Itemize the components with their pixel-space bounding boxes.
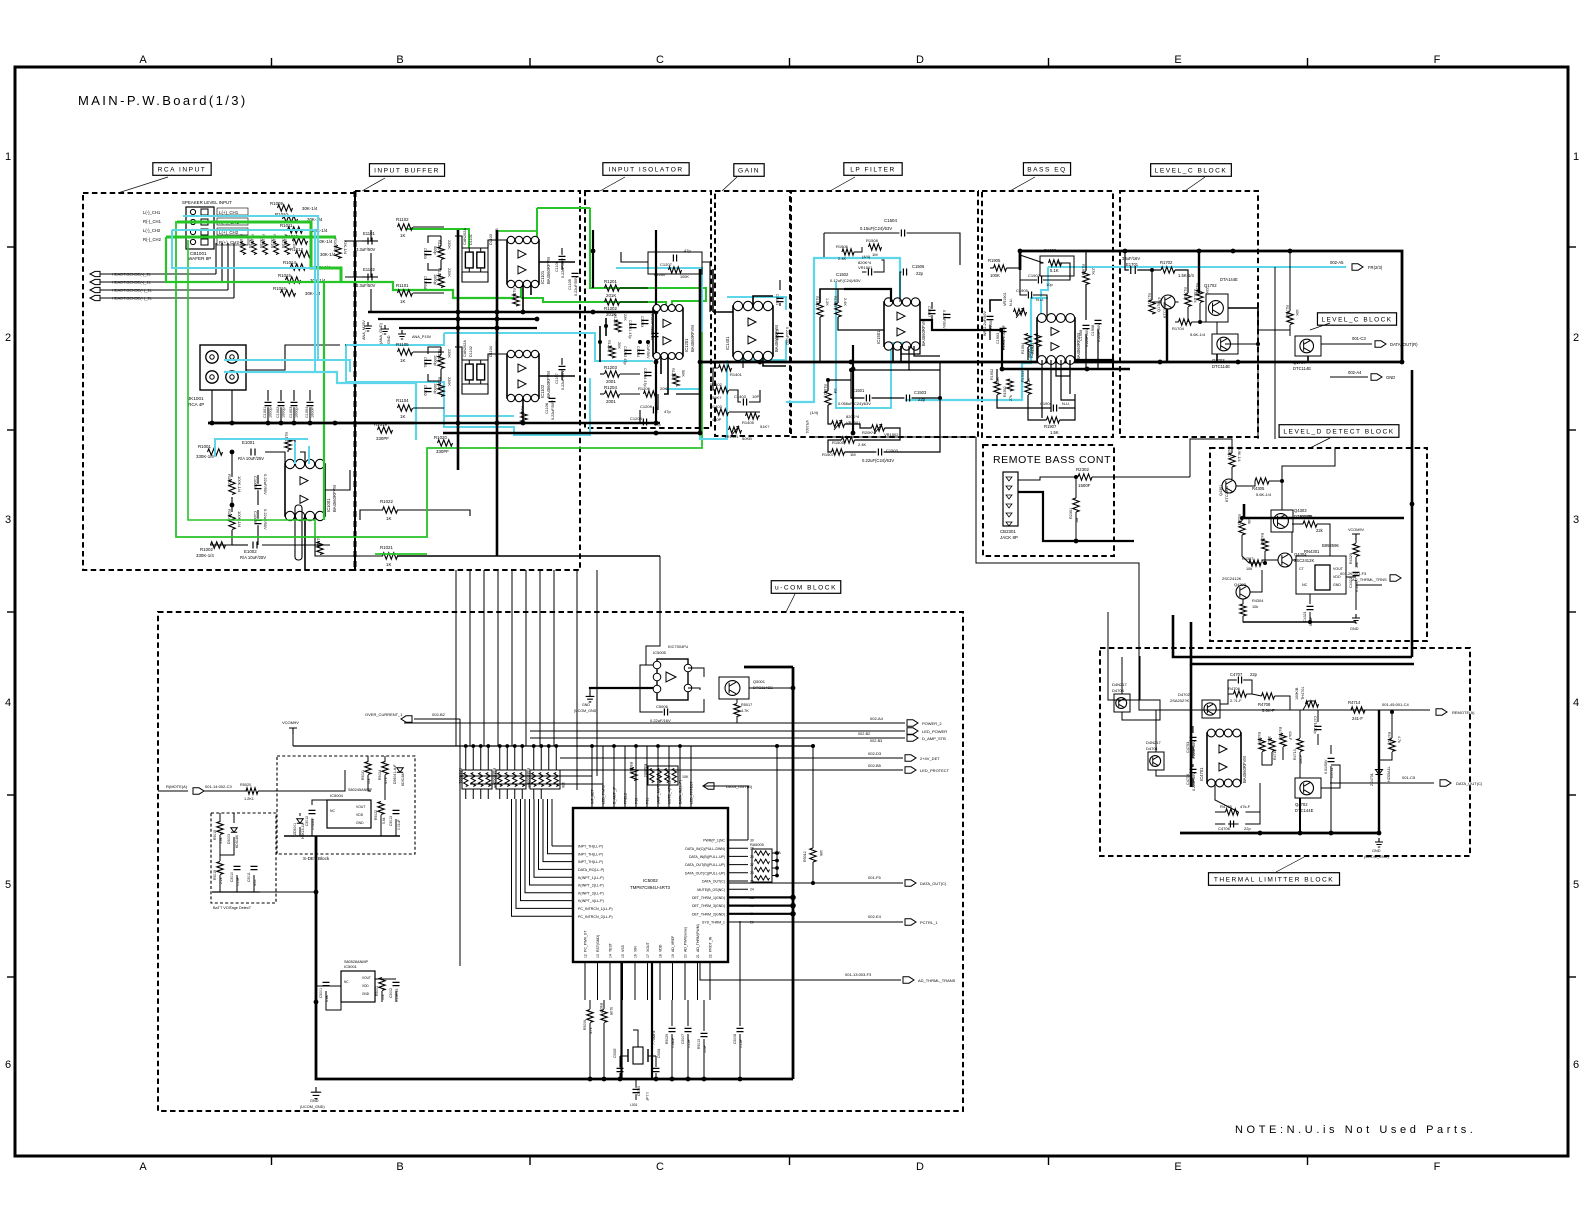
svg-text:0.22uF/50V: 0.22uF/50V xyxy=(574,276,578,296)
row ticks xyxy=(7,246,15,248)
arrow OVER_CURRENT xyxy=(401,716,412,722)
resistor R1502 xyxy=(825,391,831,405)
svg-text:C1902: C1902 xyxy=(1028,273,1041,278)
svg-text:INPT_TH(LL-P): INPT_TH(LL-P) xyxy=(578,845,603,849)
svg-text:VCOM9V: VCOM9V xyxy=(1348,528,1365,532)
power VDD9V xyxy=(1352,534,1360,540)
svg-text:BA4560RFVM: BA4560RFVM xyxy=(546,257,551,284)
wire network feeds xyxy=(465,746,467,770)
resistor R5015 xyxy=(217,822,223,835)
svg-text:KDS184: KDS184 xyxy=(401,773,405,786)
svg-text:100K/B: 100K/B xyxy=(1295,687,1299,700)
block box INPUT BUFFER xyxy=(355,191,580,570)
svg-text:BA4560RFVM: BA4560RFVM xyxy=(332,485,337,512)
svg-text:PC_INTRCN_1(LL-P): PC_INTRCN_1(LL-P) xyxy=(578,907,613,911)
wire lp thick vertical xyxy=(852,345,854,433)
ic IC5005 dampstb xyxy=(657,659,688,700)
svg-text:ZD4701: ZD4701 xyxy=(1370,773,1374,786)
svg-text:002-B2: 002-B2 xyxy=(432,712,446,717)
svg-text:C1002: C1002 xyxy=(276,407,280,418)
svg-text:5.1K: 5.1K xyxy=(1050,268,1059,273)
svg-text:1.5K-1/4: 1.5K-1/4 xyxy=(1178,273,1195,278)
resistor R1201 xyxy=(605,285,620,291)
wire thermal bottom bus xyxy=(1180,832,1379,835)
resistor R4303 xyxy=(1239,521,1245,535)
wire mcu top rail links xyxy=(460,775,592,777)
resistor R1103 xyxy=(438,275,444,288)
svg-text:CAN202A: CAN202A xyxy=(463,228,467,245)
variable resistor VR1401 xyxy=(729,427,742,433)
arrow out 2+4V_DET xyxy=(560,757,903,759)
svg-text:C1203: C1203 xyxy=(640,316,644,327)
svg-text:E1102: E1102 xyxy=(363,267,375,272)
svg-text:C5007: C5007 xyxy=(681,1034,685,1044)
wire cyan long to FR arrow xyxy=(1048,266,1346,268)
arrow out DATA_OUT B xyxy=(703,783,714,789)
svg-text:C1006: C1006 xyxy=(253,511,258,524)
svg-text:GAF203B: GAF203B xyxy=(495,228,499,245)
svg-text:C5008: C5008 xyxy=(733,1034,737,1044)
wire buffer mid rail 3 xyxy=(399,327,537,329)
svg-text:R1102: R1102 xyxy=(396,217,409,222)
resistor R1923 xyxy=(1035,334,1041,347)
svg-text:001-F5: 001-F5 xyxy=(868,875,881,880)
diode D4701 xyxy=(1148,752,1164,770)
svg-text:D1102: D1102 xyxy=(469,346,473,357)
block box BASS EQ xyxy=(982,191,1113,437)
wire green buffer top xyxy=(537,207,590,209)
resistor R1507 xyxy=(832,449,845,455)
svg-text:C1004: C1004 xyxy=(305,407,309,418)
label INPUT ISOLATOR xyxy=(600,177,625,191)
capacitor E1002 xyxy=(253,542,257,549)
svg-text:10K: 10K xyxy=(682,775,689,779)
svg-text:K(INPT_4(LL-P): K(INPT_4(LL-P) xyxy=(578,899,604,903)
resistor R1015 xyxy=(286,277,301,283)
svg-text:0.22uF/252: 0.22uF/252 xyxy=(785,327,789,345)
svg-text:DET_THRM_1(GND): DET_THRM_1(GND) xyxy=(692,896,725,900)
svg-text:(ANA_GND): (ANA_GND) xyxy=(379,322,383,344)
capacitor C5008 xyxy=(737,1028,744,1031)
resistor R1102 xyxy=(398,224,413,230)
power VCOM9V ucom xyxy=(289,728,297,734)
wire mcu bottom links xyxy=(589,1000,591,1009)
svg-text:DATA_RC(LL-P): DATA_RC(LL-P) xyxy=(578,868,604,872)
resistor R5012 xyxy=(810,848,816,862)
svg-text:IC1102: IC1102 xyxy=(540,384,545,398)
resistor R5006 xyxy=(587,1010,593,1023)
svg-text:0.01/50V: 0.01/50V xyxy=(1324,759,1328,774)
resistor cluster R1005-R1008 xyxy=(241,242,246,255)
svg-text:5.6K-F: 5.6K-F xyxy=(1262,708,1275,713)
resistor R5019 xyxy=(217,862,223,875)
resistor R1203 xyxy=(605,371,620,377)
svg-text:2001: 2001 xyxy=(606,399,616,404)
wire buffer mid rail 2 xyxy=(378,318,537,320)
block box LEVEL_D DETECT BLOCK xyxy=(1210,448,1427,641)
svg-text:50KB: 50KB xyxy=(742,436,752,441)
svg-text:Q1702: Q1702 xyxy=(1204,283,1217,288)
svg-text:P00: P00 xyxy=(635,798,639,804)
resistor R1701 xyxy=(1149,300,1155,314)
svg-text:KIC7S04FU: KIC7S04FU xyxy=(668,645,689,649)
svg-text:ZD5001: ZD5001 xyxy=(293,823,297,835)
resistor R2302 xyxy=(1078,474,1092,480)
resistor R1204 xyxy=(605,391,620,397)
gnd leveld xyxy=(1352,614,1360,623)
op-amp IC4701 xyxy=(1207,733,1241,783)
svg-text:R1704: R1704 xyxy=(1172,326,1185,331)
svg-text:B: B xyxy=(396,54,403,66)
svg-text:R5012: R5012 xyxy=(803,851,807,862)
capacitor C1902 xyxy=(1038,277,1041,284)
capacitor C5002 xyxy=(393,982,400,985)
svg-text:R1905: R1905 xyxy=(988,258,1001,263)
svg-text:C5012: C5012 xyxy=(305,816,309,826)
arrow out LED_POWER xyxy=(530,730,905,732)
svg-text:C1105A: C1105A xyxy=(423,276,427,290)
wire remote feed left xyxy=(202,790,247,792)
svg-text:R1020: R1020 xyxy=(434,435,447,440)
op-amp IC1501 xyxy=(884,302,920,346)
svg-text:5: 5 xyxy=(1573,879,1579,891)
capacitor C4703 xyxy=(1190,737,1197,740)
wire ucom gnd bus xyxy=(316,836,793,1079)
svg-text:MUTE(B_OS(NC): MUTE(B_OS(NC) xyxy=(697,888,725,892)
resistor R1013 xyxy=(296,251,311,257)
diode D5904 xyxy=(397,768,403,773)
wire cyan rca 2 xyxy=(224,372,416,440)
svg-text:C1906: C1906 xyxy=(1079,330,1083,341)
resistor R4714 xyxy=(1351,707,1365,713)
wire basseq thick out xyxy=(1075,360,1113,362)
transistor Q1704 xyxy=(1295,336,1321,356)
svg-text:Q1704: Q1704 xyxy=(1293,360,1306,365)
wire cyan gain loop xyxy=(727,297,786,310)
resistor R1905 xyxy=(994,265,1007,271)
capacitor C5003 xyxy=(617,1068,624,1071)
svg-text:BA4560RFVM: BA4560RFVM xyxy=(690,325,695,352)
svg-text:D4703: D4703 xyxy=(1112,688,1125,693)
resistor R4304 xyxy=(1240,604,1246,616)
svg-text:Q4302: Q4302 xyxy=(1234,582,1247,587)
capacitor C1504 xyxy=(901,230,904,237)
arrow out PCTRL xyxy=(748,921,903,923)
capacitor C1151 xyxy=(425,360,432,363)
svg-text:R1016: R1016 xyxy=(273,286,286,291)
svg-text:Q1703: Q1703 xyxy=(1212,358,1225,363)
svg-text:DET_THRM_2(GND): DET_THRM_2(GND) xyxy=(692,912,725,916)
svg-text:R1260: R1260 xyxy=(654,273,665,277)
transistor Q4702 xyxy=(1295,778,1321,798)
capacitor C1231 xyxy=(630,324,637,327)
label LEVEL_C inner xyxy=(1317,313,1396,325)
svg-text:21: 21 xyxy=(696,954,700,958)
svg-text:AD_THRM(PWM): AD_THRM(PWM) xyxy=(696,924,700,952)
resistor R5001 xyxy=(379,978,385,991)
svg-text:INPUT ISOLATOR: INPUT ISOLATOR xyxy=(608,166,683,173)
svg-text:R1204: R1204 xyxy=(604,385,617,390)
svg-text:NC: NC xyxy=(1302,583,1308,587)
resistor R1020 xyxy=(438,440,453,446)
svg-text:002-A5: 002-A5 xyxy=(1330,260,1344,265)
svg-text:0.22uF/50V: 0.22uF/50V xyxy=(263,474,268,495)
svg-text:K(INPT_3(LL-P): K(INPT_3(LL-P) xyxy=(578,891,604,895)
svg-text:0.22uF/16V: 0.22uF/16V xyxy=(650,718,671,723)
wire thermal left thin xyxy=(1139,656,1141,700)
label GAIN xyxy=(722,177,737,191)
resistor R1014 xyxy=(291,264,306,270)
svg-text:002-B2: 002-B2 xyxy=(858,732,870,736)
svg-text:41k-F: 41k-F xyxy=(1288,731,1292,741)
resistor R1012 xyxy=(293,238,308,244)
wire network bottoms xyxy=(465,789,467,799)
svg-text:C1003: C1003 xyxy=(289,407,293,418)
op-amp IC1201 xyxy=(653,308,683,356)
svg-text:5.6k: 5.6k xyxy=(382,817,386,824)
svg-text:4: 4 xyxy=(1573,697,1579,709)
svg-text:R4706: R4706 xyxy=(1228,686,1241,691)
svg-text:N.U.: N.U. xyxy=(1062,401,1070,406)
svg-text:S80528ANMP: S80528ANMP xyxy=(344,960,369,964)
wire green isolator feed 1 xyxy=(590,208,706,308)
transistor Q1703 xyxy=(1212,334,1238,354)
svg-text:R1907: R1907 xyxy=(1044,424,1057,429)
svg-text:001-13:003-F3: 001-13:003-F3 xyxy=(845,972,872,977)
transistor Q4304 xyxy=(1278,553,1292,567)
svg-text:DATA_OUT(C): DATA_OUT(C) xyxy=(702,880,725,884)
svg-text:N.U.: N.U. xyxy=(1036,297,1044,302)
capacitor C1904 xyxy=(1053,405,1056,412)
label LEVEL_C BLOCK xyxy=(1185,177,1205,191)
wire buffer thick v2 xyxy=(496,230,499,556)
wire remote line across xyxy=(814,436,976,438)
resistor R4309 xyxy=(1259,739,1265,752)
fet pair Q1101 xyxy=(462,248,488,272)
label LEVEL_D DETECT BLOCK xyxy=(1310,438,1330,448)
wire rca vertical leads xyxy=(211,390,213,423)
svg-text:XIN: XIN xyxy=(634,946,638,952)
svg-text:IC1501: IC1501 xyxy=(876,330,881,344)
resistor R5021 xyxy=(365,762,371,775)
svg-text:0.01uF: 0.01uF xyxy=(397,819,401,830)
resistor R1260 xyxy=(669,267,682,273)
svg-text:IC5004: IC5004 xyxy=(330,793,344,798)
capacitor E1102 xyxy=(368,274,372,281)
svg-text:1M: 1M xyxy=(872,252,878,257)
op-amp IC1101 xyxy=(507,240,539,284)
svg-text:C1102: C1102 xyxy=(423,385,427,396)
resistor network RA5004 xyxy=(648,766,678,785)
resistor R1021 xyxy=(383,553,398,559)
svg-text:CAN202A: CAN202A xyxy=(463,340,467,357)
wire drop links xyxy=(576,570,578,790)
svg-text:CT: CT xyxy=(1299,567,1305,571)
wire green left loop xyxy=(176,221,702,537)
arrow out DATA_OUT C2 xyxy=(728,882,903,884)
svg-text:IC1901: IC1901 xyxy=(1029,344,1034,358)
svg-text:DTC114E: DTC114E xyxy=(1212,364,1230,369)
svg-text:C1503: C1503 xyxy=(914,390,927,395)
capacitor C1908 xyxy=(1095,320,1102,323)
svg-text:DATA_IN(C)(PULL-DWN): DATA_IN(C)(PULL-DWN) xyxy=(685,847,725,851)
resistor R1505 xyxy=(842,437,855,443)
svg-text:R5015: R5015 xyxy=(213,830,217,840)
resistor network RAN5001 xyxy=(462,770,492,789)
resistor network RA5005 xyxy=(752,849,772,882)
svg-text:IC5001: IC5001 xyxy=(344,964,358,969)
svg-text:R1003: R1003 xyxy=(227,474,232,487)
wire cyan buffer low xyxy=(444,378,590,435)
svg-text:R5024: R5024 xyxy=(378,770,382,780)
svg-text:IC1101: IC1101 xyxy=(540,270,545,284)
svg-text:A: A xyxy=(139,1161,147,1173)
svg-text:LEVEL_D DETECT BLOCK: LEVEL_D DETECT BLOCK xyxy=(1283,428,1394,435)
svg-text:DATA_OUT(R): DATA_OUT(R) xyxy=(1390,342,1418,347)
svg-text:B: B xyxy=(396,1161,403,1173)
svg-text:30K-1/4: 30K-1/4 xyxy=(320,252,336,257)
svg-text:2.4K: 2.4K xyxy=(858,442,867,447)
svg-text:Q4702: Q4702 xyxy=(1295,802,1308,807)
svg-text:C1105: C1105 xyxy=(568,279,572,290)
svg-text:PREL2: PREL2 xyxy=(624,793,628,804)
svg-text:430P: 430P xyxy=(712,417,722,422)
transistor Q1702 xyxy=(1206,294,1228,322)
svg-text:0.22uF/50V: 0.22uF/50V xyxy=(551,400,555,420)
svg-text:(1/4): (1/4) xyxy=(810,410,819,415)
svg-text:22K: 22K xyxy=(1205,287,1209,294)
svg-text:WR 2.2uF/50V: WR 2.2uF/50V xyxy=(983,311,987,336)
capacitor C1106 xyxy=(559,256,566,259)
svg-text:D_AMP_(P: D_AMP_(P xyxy=(613,786,617,804)
resistor R4308 xyxy=(1303,521,1317,527)
arrow DATA_OUT C thermal xyxy=(1330,782,1434,784)
svg-text:C: C xyxy=(656,54,664,66)
svg-text:ANA_P15V: ANA_P15V xyxy=(412,335,432,339)
resistor R1010 xyxy=(283,216,298,222)
svg-text:R4306: R4306 xyxy=(1260,533,1264,544)
svg-text:R5001: R5001 xyxy=(375,986,379,996)
svg-text:R1151: R1151 xyxy=(437,349,441,360)
svg-text:C5005: C5005 xyxy=(637,1086,641,1096)
resistor R1703 xyxy=(1185,294,1191,307)
wire cyan top box xyxy=(172,230,315,268)
svg-text:C1401: C1401 xyxy=(775,294,779,305)
svg-text:R1706: R1706 xyxy=(1285,305,1289,316)
svg-text:R1501: R1501 xyxy=(815,296,819,307)
wire main rail lower2 xyxy=(443,269,700,433)
svg-text:LED_POWER: LED_POWER xyxy=(922,729,947,734)
svg-text:002-E4: 002-E4 xyxy=(868,914,882,919)
resistor R1153 xyxy=(438,384,444,397)
svg-text:R1101: R1101 xyxy=(396,283,409,288)
capacitor C4706 xyxy=(1230,821,1233,828)
svg-text:K(INPT_1(LL-P): K(INPT_1(LL-P) xyxy=(578,876,604,880)
resistor R1110 xyxy=(521,412,527,424)
svg-text:PWR(P_1(NC: PWR(P_1(NC xyxy=(703,839,725,843)
svg-text:VR1501: VR1501 xyxy=(858,265,873,270)
svg-text:R4329: R4329 xyxy=(1349,553,1353,564)
svg-text:L(+)_CH1: L(+)_CH1 xyxy=(219,210,239,215)
resistor R1101 xyxy=(398,290,413,296)
op-amp IC1102 xyxy=(507,354,539,398)
svg-text:VCOM9V: VCOM9V xyxy=(282,720,299,725)
capacitor C1503 xyxy=(906,395,909,402)
svg-text:JK1001: JK1001 xyxy=(188,396,204,401)
capacitor C4711 xyxy=(1328,758,1335,761)
svg-text:R1105: R1105 xyxy=(396,342,409,347)
svg-text:D: D xyxy=(916,1161,924,1173)
svg-text:GND: GND xyxy=(1333,583,1341,587)
svg-text:E1002: E1002 xyxy=(244,549,257,554)
svg-text:20K: 20K xyxy=(617,342,621,349)
svg-text:27K: 27K xyxy=(1091,268,1095,275)
capacitor C1108 xyxy=(549,398,556,401)
svg-text:LP FILTER: LP FILTER xyxy=(850,166,896,173)
svg-text:E1101: E1101 xyxy=(363,231,375,236)
resistor R1003 xyxy=(229,480,235,495)
svg-text:19: 19 xyxy=(671,954,675,958)
svg-text:DTC114E: DTC114E xyxy=(1293,366,1311,371)
capacitor C1103 xyxy=(425,251,432,254)
capacitor C5005 xyxy=(633,1089,640,1092)
arrow DATA_OUT R xyxy=(1321,343,1372,345)
svg-text:F: F xyxy=(1434,54,1441,66)
resistor R1934 xyxy=(1025,382,1031,395)
svg-text:2+4V_DET: 2+4V_DET xyxy=(920,756,940,761)
wire lp internals xyxy=(820,289,844,303)
svg-text:C4710 22p: C4710 22p xyxy=(1313,716,1317,734)
svg-text:C5011: C5011 xyxy=(247,872,251,882)
resistor R1702 xyxy=(1161,267,1175,273)
svg-text:22K: 22K xyxy=(623,314,627,321)
variable resistor VR1901 xyxy=(1014,309,1027,315)
svg-text:R1017: R1017 xyxy=(284,432,288,443)
sdet block box xyxy=(277,756,415,854)
gnd ANA_P15V xyxy=(398,330,406,339)
capacitor C1403 xyxy=(743,399,746,406)
resistor R1208 xyxy=(609,346,615,358)
svg-text:R1902: R1902 xyxy=(990,369,994,380)
svg-text:FR(2/3): FR(2/3) xyxy=(1368,265,1383,270)
resistor R1904 xyxy=(1025,334,1031,347)
svg-text:INPUT BUFFER: INPUT BUFFER xyxy=(374,167,440,174)
capacitor C5010 xyxy=(234,866,241,869)
svg-text:47k-F: 47k-F xyxy=(1240,804,1251,809)
wire mcu right connects xyxy=(703,786,748,840)
svg-text:47p: 47p xyxy=(684,248,691,253)
svg-text:RN4301: RN4301 xyxy=(1304,549,1320,554)
svg-text:R1206: R1206 xyxy=(638,386,651,391)
wire buffer thick v1 xyxy=(457,230,460,470)
svg-text:3: 3 xyxy=(1573,514,1579,526)
arrow out D_AMP_STB xyxy=(741,737,905,739)
wire lp top loop xyxy=(824,232,899,234)
svg-text:C5003: C5003 xyxy=(613,1048,617,1058)
svg-text:VSS: VSS xyxy=(621,944,625,952)
svg-text:GND: GND xyxy=(362,992,370,996)
resistor R5022 xyxy=(378,802,384,815)
svg-text:2: 2 xyxy=(1573,332,1579,344)
svg-text:(4/4): (4/4) xyxy=(862,254,871,259)
resistor R4713 xyxy=(1297,739,1303,752)
wire green feed stubs xyxy=(166,237,341,282)
wire cyan lp to basseq xyxy=(905,298,1048,400)
svg-text:C1502: C1502 xyxy=(836,272,849,277)
svg-text:RA5005: RA5005 xyxy=(750,843,764,847)
svg-text:R1506: R1506 xyxy=(836,244,849,249)
svg-text:R2302: R2302 xyxy=(1076,467,1089,472)
